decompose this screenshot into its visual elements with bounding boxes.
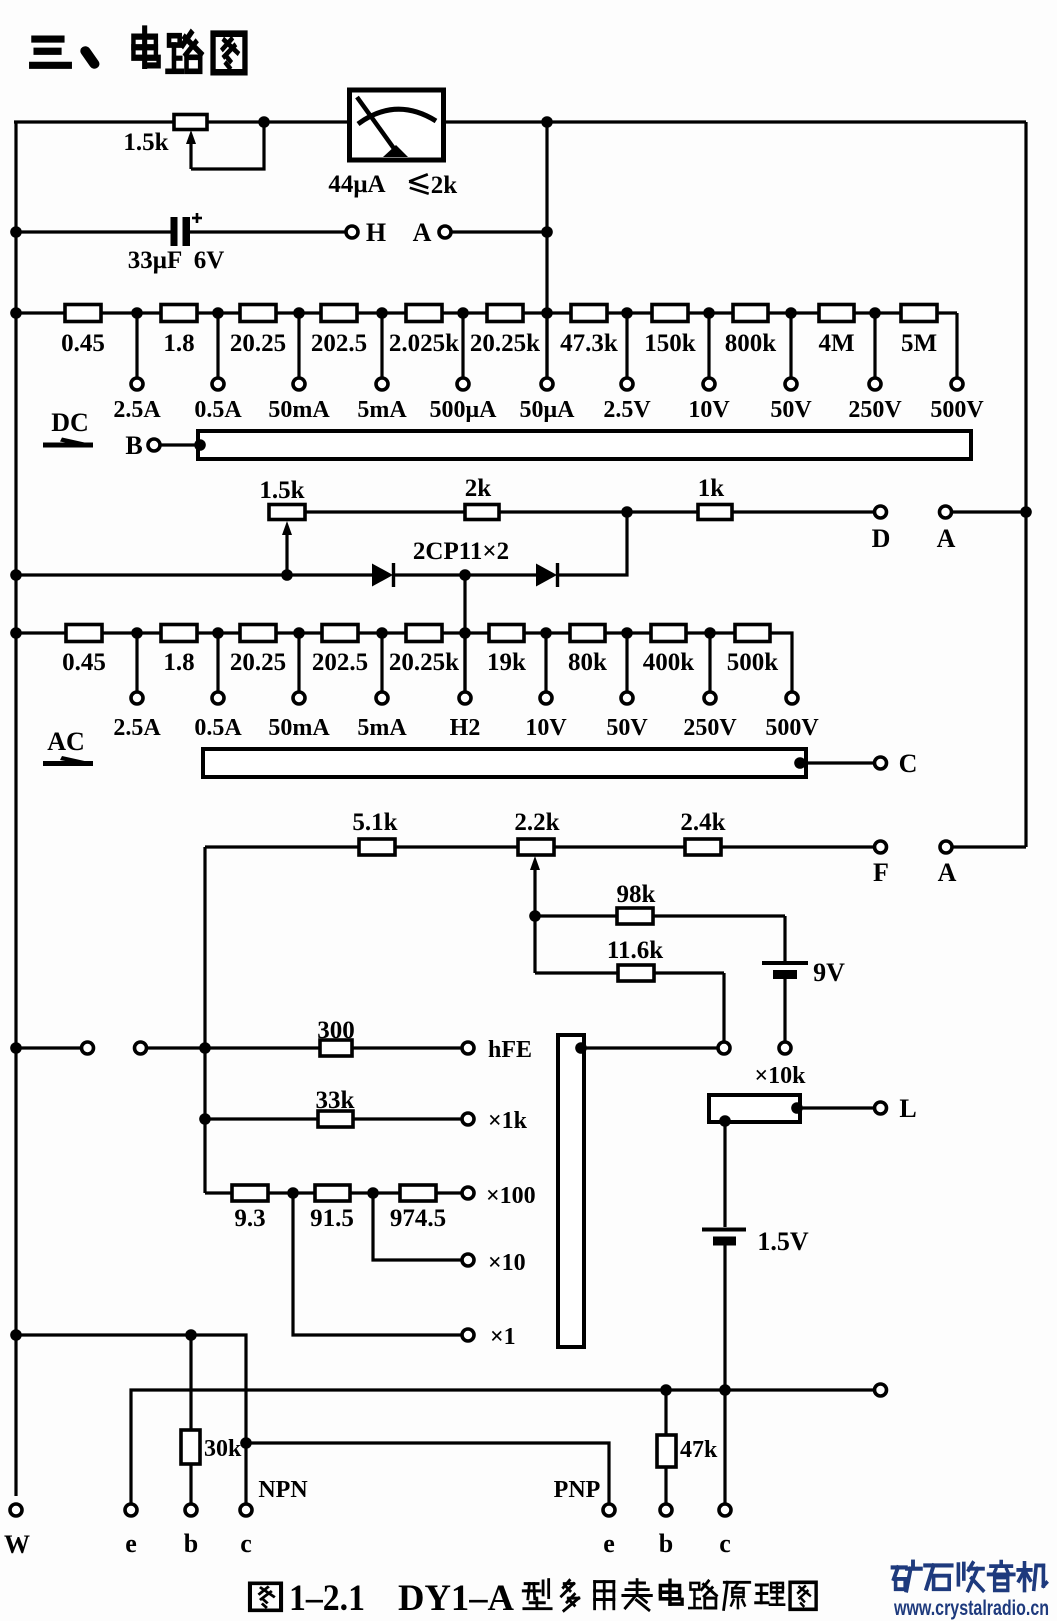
node junction row2 50mA (293, 627, 305, 639)
label 10V row1 (688, 397, 730, 423)
label 50V row2 (606, 715, 648, 741)
resistor 1.8 row2 (161, 625, 197, 642)
wire plug down (723, 1122, 726, 1227)
resistor R15 5.1k (359, 839, 395, 855)
resistor 1.8 row1 (161, 305, 197, 322)
wire x1k row (205, 1117, 461, 1120)
wire drop row2 250V (708, 633, 711, 692)
wire battery 9V down (783, 979, 786, 1042)
svg-text:50V: 50V (606, 715, 648, 741)
label H (366, 218, 386, 247)
label A cap row (413, 218, 432, 247)
wire plug to L (800, 1106, 874, 1109)
label D (872, 524, 891, 553)
wire drop row2 500V (770, 633, 792, 692)
resistor R22 9.3 (232, 1185, 268, 1201)
label F (873, 858, 889, 887)
terminal x10 (462, 1254, 474, 1266)
node junction row2 10V (540, 627, 552, 639)
svg-text:5M: 5M (901, 330, 937, 357)
wire AC to C (806, 761, 874, 764)
label 0.5A row1 (194, 397, 242, 423)
resistor 2.025k row1 (406, 305, 442, 322)
wire drop row1 50μA (545, 313, 548, 378)
wire F row (205, 845, 874, 848)
node junction left cap row (10, 226, 22, 238)
svg-text:10V: 10V (688, 397, 730, 423)
wire x100 row (205, 1191, 461, 1194)
wire drop row2 0.5A (216, 633, 219, 692)
svg-text:1.5k: 1.5k (259, 477, 304, 504)
terminal e NPN (125, 1504, 137, 1516)
terminal x10k jack right (779, 1042, 791, 1054)
potentiometer R1 1.5k (174, 115, 207, 130)
wire D row 1 (305, 510, 465, 513)
label 0.5A row2 (194, 715, 242, 741)
value label 2k (465, 475, 492, 502)
resistor R20 300 (320, 1040, 352, 1056)
svg-text:44μA: 44μA (328, 171, 385, 198)
node junction A-bus cap row (541, 226, 553, 238)
label 2.5V row1 (603, 397, 651, 423)
label NPN (258, 1477, 308, 1503)
node junction row1 2.5V (621, 307, 633, 319)
resistor 202.5 row2 (322, 625, 358, 642)
value label 974.5 (390, 1205, 446, 1232)
label x1k (488, 1108, 528, 1134)
terminal 10V row2 (540, 692, 552, 704)
resistor R25 30k (181, 1430, 200, 1464)
node junction row2 H2 (459, 627, 471, 639)
label hFE (488, 1037, 532, 1063)
node junction left row1 (10, 307, 22, 319)
label e PNP (603, 1529, 615, 1558)
wire bottom left row (16, 1335, 246, 1503)
switch bar AC (203, 749, 806, 777)
node junction left bottom (10, 1329, 22, 1341)
node junction F-rail x1k (199, 1113, 211, 1125)
svg-text:974.5: 974.5 (390, 1205, 446, 1232)
terminal x1k (462, 1113, 474, 1125)
meter M1 44uA (350, 90, 444, 160)
value label 1k (698, 475, 725, 502)
wire 11.6k down (722, 973, 725, 1042)
node junction row1 250V (869, 307, 881, 319)
label 10V row2 (525, 715, 567, 741)
wire DC resistor chain (16, 311, 957, 314)
node junction row1 10V (703, 307, 715, 319)
label A D-row (937, 524, 956, 553)
resistor R23 91.5 (315, 1185, 350, 1201)
terminal C (875, 757, 887, 769)
label 250V row2 (683, 715, 737, 741)
svg-text:20.25k: 20.25k (470, 330, 540, 357)
wire battery 1.5V down (723, 1245, 726, 1503)
terminal 2.5A row2 (131, 692, 143, 704)
node junction plug right (791, 1102, 803, 1114)
svg-text:9.3: 9.3 (234, 1205, 265, 1232)
svg-text:500V: 500V (765, 715, 819, 741)
meter label 44uA (328, 171, 385, 198)
label 500V row1 (930, 397, 984, 423)
svg-text:1.5k: 1.5k (123, 129, 168, 156)
resistor 4M row1 (819, 305, 854, 322)
svg-text:DY1–A: DY1–A (398, 1578, 514, 1619)
wire diode row mid (394, 573, 538, 576)
node junction bar hFE (575, 1042, 587, 1054)
svg-text:2k: 2k (431, 172, 458, 199)
value label 0.45 row2 (62, 649, 106, 676)
svg-text:PNP: PNP (554, 1477, 601, 1503)
wire 98k row (535, 914, 785, 917)
svg-text:50V: 50V (770, 397, 812, 423)
svg-text:20.25: 20.25 (230, 649, 286, 676)
value label 500k row2 (727, 649, 779, 676)
node junction switch AC right (794, 757, 806, 769)
terminal 2.5V row1 (621, 378, 633, 390)
node junction left row2 (10, 627, 22, 639)
terminal F (875, 841, 887, 853)
svg-text:6V: 6V (194, 247, 225, 274)
label 50mA row2 (268, 715, 330, 741)
wire diode junction drop (463, 575, 466, 692)
wire drop row2 H2 (463, 633, 466, 692)
terminal hFE jack right (135, 1042, 147, 1054)
svg-text:AC: AC (47, 727, 85, 756)
value label 20.25 row2 (230, 649, 286, 676)
node junction row1 500μA (457, 307, 469, 319)
svg-text:NPN: NPN (258, 1477, 308, 1503)
svg-text:C: C (899, 749, 918, 778)
node junction row2 50V (621, 627, 633, 639)
value label 150k row1 (644, 330, 696, 357)
value label 300 (317, 1017, 355, 1044)
wire B to switch (161, 443, 201, 446)
wire drop row1 10V (707, 313, 710, 378)
node junction switch left (194, 439, 206, 451)
svg-text:400k: 400k (643, 649, 695, 676)
terminal 500V row1 (951, 378, 963, 390)
wire drop row2 10V (544, 633, 547, 692)
svg-text:H: H (366, 218, 386, 247)
resistor 47.3k row1 (571, 305, 607, 322)
svg-text:150k: 150k (644, 330, 696, 357)
svg-text:0.45: 0.45 (62, 649, 106, 676)
wire drop row1 50mA (297, 313, 300, 378)
svg-text:250V: 250V (683, 715, 737, 741)
wire D row 2 (499, 510, 698, 513)
svg-text:W: W (4, 1530, 30, 1559)
resistor R17 2.4k (685, 839, 721, 855)
svg-text:5mA: 5mA (357, 397, 407, 423)
label 50V row1 (770, 397, 812, 423)
svg-text:91.5: 91.5 (310, 1205, 354, 1232)
terminal 50mA row1 (293, 378, 305, 390)
svg-text:98k: 98k (617, 881, 656, 908)
wire diode row to 2k (558, 512, 627, 575)
svg-text:0.5A: 0.5A (194, 715, 242, 741)
node junction diode mid (459, 569, 471, 581)
svg-text:9V: 9V (813, 958, 845, 987)
svg-text:500μA: 500μA (430, 397, 498, 423)
wire A D-row to rail (952, 510, 1026, 513)
wire drop row1 2.5A (135, 313, 138, 378)
svg-text:2.5A: 2.5A (113, 397, 161, 423)
terminal W (10, 1504, 22, 1516)
wire NPN c to PNP e (246, 1443, 609, 1503)
switch bar DC (198, 431, 971, 459)
resistor 5M row1 (901, 305, 937, 322)
label x100 (486, 1183, 536, 1209)
node junction row2 250V (704, 627, 716, 639)
label c PNP (719, 1529, 731, 1558)
svg-text:c: c (719, 1529, 731, 1558)
value label 2.2k (514, 809, 559, 836)
resistor 80k row2 (570, 625, 605, 642)
label A F-row (938, 858, 957, 887)
resistor R18 98k (617, 908, 653, 924)
resistor 500k row2 (735, 625, 770, 642)
terminal e PNP (603, 1504, 615, 1516)
terminal c NPN (240, 1504, 252, 1516)
label e NPN (125, 1529, 137, 1558)
value label 202.5 row2 (312, 649, 368, 676)
svg-text:H2: H2 (450, 715, 481, 741)
label 500μA row1 (430, 397, 498, 423)
switch bar ohms (558, 1035, 584, 1347)
resistor 800k row1 (733, 305, 768, 322)
resistor 20.25k row2 (406, 625, 442, 642)
svg-text:1.5V: 1.5V (757, 1227, 809, 1256)
label b PNP (659, 1529, 673, 1558)
svg-text:2k: 2k (465, 475, 492, 502)
wire top rail right (446, 120, 1026, 123)
node junction row1 0.5A (212, 307, 224, 319)
wire drop row2 50mA (297, 633, 300, 692)
svg-text:30k: 30k (204, 1436, 242, 1462)
resistor 0.45 row2 (66, 625, 102, 642)
terminal 0.5A row2 (212, 692, 224, 704)
potentiometer R12 1.5k (269, 505, 305, 520)
terminal 2.5A row1 (131, 378, 143, 390)
terminal common right (875, 1384, 887, 1396)
value label 20.25k row2 (389, 649, 459, 676)
label x10k (754, 1063, 806, 1089)
value label 400k row2 (643, 649, 695, 676)
svg-text:500V: 500V (930, 397, 984, 423)
label W (4, 1530, 30, 1559)
node junction 30k top (185, 1329, 197, 1341)
wire hFE mid (147, 1046, 461, 1049)
wire drop row1 2.5V (625, 313, 628, 378)
terminal L (875, 1102, 887, 1114)
wire 98k to battery (783, 916, 786, 961)
value label 80k row2 (568, 649, 607, 676)
svg-text:×100: ×100 (486, 1183, 536, 1209)
wire drop row2 5mA (380, 633, 383, 692)
svg-text:50μA: 50μA (520, 397, 576, 423)
svg-text:×10: ×10 (488, 1250, 526, 1276)
svg-text:250V: 250V (848, 397, 902, 423)
value label 20.25 row1 (230, 330, 286, 357)
wire x10 branch (373, 1193, 461, 1260)
svg-text:2.5A: 2.5A (113, 715, 161, 741)
resistor 19k row2 (489, 625, 524, 642)
terminal 5mA row1 (376, 378, 388, 390)
value label 4M row1 (818, 330, 854, 357)
svg-text:A: A (938, 858, 957, 887)
node junction row1 50μA (541, 307, 553, 319)
value label 9V (813, 958, 845, 987)
wire drop row1 500μA (461, 313, 464, 378)
svg-text:2CP11×2: 2CP11×2 (413, 538, 509, 565)
label 250V row1 (848, 397, 902, 423)
resistor 202.5 row1 (321, 305, 357, 322)
node junction c PNP wire (719, 1384, 731, 1396)
range plug x10k (709, 1095, 800, 1122)
DC direction arrow (43, 438, 93, 448)
value label 1.8 row1 (163, 330, 194, 357)
value label 47k (680, 1437, 718, 1463)
value label 202.5 row1 (311, 330, 367, 357)
svg-text:1.8: 1.8 (163, 649, 194, 676)
label 50mA row1 (268, 397, 330, 423)
terminal H (346, 226, 358, 238)
resistor R19 11.6k (618, 965, 654, 981)
terminal 50V row2 (621, 692, 633, 704)
node junction row1 50V (785, 307, 797, 319)
value label 800k row1 (725, 330, 777, 357)
value label 5M row1 (901, 330, 937, 357)
terminal 5mA row2 (376, 692, 388, 704)
value label 33uF 6V (128, 247, 225, 274)
value label 5.1k (352, 809, 397, 836)
value label 1.5k D-row (259, 477, 304, 504)
terminal A cap row (439, 226, 451, 238)
terminal hFE (462, 1042, 474, 1054)
label 500V row2 (765, 715, 819, 741)
resistor R21 33k (318, 1111, 353, 1127)
label 5mA row2 (357, 715, 407, 741)
wire drop row1 500V (955, 313, 958, 378)
svg-text:47k: 47k (680, 1437, 718, 1463)
node junction meter out (541, 116, 553, 128)
wire top rail left (14, 120, 347, 123)
svg-text:L: L (899, 1094, 916, 1123)
resistor 150k row1 (652, 305, 688, 322)
wire A F-row to rail (953, 845, 1027, 848)
svg-text:A: A (937, 524, 956, 553)
svg-text:800k: 800k (725, 330, 777, 357)
wire vertical A-bus (545, 122, 548, 378)
svg-text:b: b (184, 1529, 198, 1558)
svg-text:80k: 80k (568, 649, 607, 676)
svg-text:19k: 19k (487, 649, 526, 676)
pot R16 wiper arrow (530, 856, 540, 973)
terminal H2 row2 (459, 692, 471, 704)
node junction x1 branch (287, 1187, 299, 1199)
value label 19k row2 (487, 649, 526, 676)
terminal 500V row2 (786, 692, 798, 704)
svg-text:e: e (125, 1529, 137, 1558)
wire AC resistor chain (16, 631, 770, 634)
value label 1.8 row2 (163, 649, 194, 676)
terminal 0.5A row1 (212, 378, 224, 390)
terminal D (875, 506, 887, 518)
svg-text:DC: DC (51, 408, 89, 437)
node junction plug bottom (719, 1115, 731, 1127)
svg-text:×1k: ×1k (488, 1108, 528, 1134)
label 2CP11x2 (413, 538, 509, 565)
node junction D-row (621, 506, 633, 518)
svg-text:202.5: 202.5 (312, 649, 368, 676)
wire left rail (14, 122, 17, 1496)
label 50μA row1 (520, 397, 576, 423)
AC direction arrow (43, 756, 93, 766)
value label 9.3 (234, 1205, 265, 1232)
label L (899, 1094, 916, 1123)
svg-text:A: A (413, 218, 432, 247)
svg-text:20.25k: 20.25k (389, 649, 459, 676)
wire x1 branch (293, 1193, 461, 1335)
label 5mA row1 (357, 397, 407, 423)
svg-text:B: B (125, 431, 142, 460)
watermark logo 矿石收音机 (893, 1562, 1047, 1591)
wire drop row1 5mA (380, 313, 383, 378)
svg-text:2.4k: 2.4k (680, 809, 725, 836)
diode D1 2CP11 (372, 563, 394, 587)
svg-text:0.45: 0.45 (61, 330, 105, 357)
svg-text:2.2k: 2.2k (514, 809, 559, 836)
node junction 47k top (660, 1384, 672, 1396)
value label 11.6k (607, 937, 663, 964)
svg-text:11.6k: 11.6k (607, 937, 663, 964)
label H2 row2 (450, 715, 481, 741)
terminal x100 (462, 1187, 474, 1199)
wire drop row2 50V (625, 633, 628, 692)
wire drop row1 50V (789, 313, 792, 378)
capacitor C1 33uF (171, 213, 203, 246)
value label 0.45 row1 (61, 330, 105, 357)
value label 98k (617, 881, 656, 908)
node junction wiper 98k (529, 910, 541, 922)
node junction row2 2.5A (131, 627, 143, 639)
svg-text:1.8: 1.8 (163, 330, 194, 357)
resistor 20.25 row1 (240, 305, 276, 322)
resistor 20.25 row2 (240, 625, 276, 642)
resistor 0.45 row1 (65, 305, 101, 322)
terminal b NPN (185, 1504, 197, 1516)
svg-text:b: b (659, 1529, 673, 1558)
terminal 50μA row1 (541, 378, 553, 390)
node junction row2 0.5A (212, 627, 224, 639)
value label 91.5 (310, 1205, 354, 1232)
terminal hFE jack left (82, 1042, 94, 1054)
caption 图1-2.1 DY1-A 型多用表电路原理图 (250, 1578, 816, 1619)
svg-text:5.1k: 5.1k (352, 809, 397, 836)
label x10 (488, 1250, 526, 1276)
wire bar to x10k jack (581, 1046, 718, 1049)
node junction row1 2.5A (131, 307, 143, 319)
svg-text:2.5V: 2.5V (603, 397, 651, 423)
terminal A F-row (940, 841, 952, 853)
value label 1.5k (123, 129, 168, 156)
value label 33k (316, 1087, 355, 1114)
value label 1.5V (757, 1227, 809, 1256)
label PNP (554, 1477, 601, 1503)
terminal 500μA row1 (457, 378, 469, 390)
label x1 (490, 1324, 516, 1350)
